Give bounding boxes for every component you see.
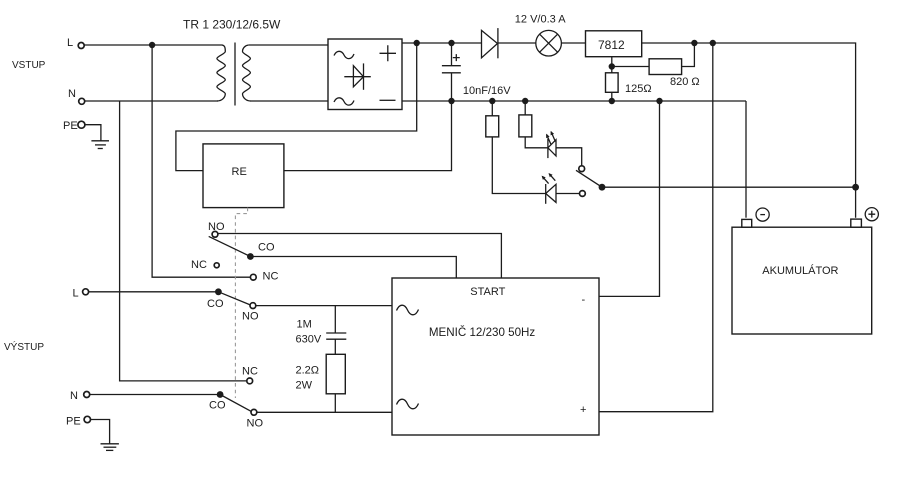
resistor RB box [519, 115, 532, 137]
svg-text:N: N [68, 88, 76, 100]
wire PE output [91, 420, 110, 444]
wire K2 NO to inverter [256, 305, 392, 307]
wire N input [85, 100, 218, 102]
lamp 12V/0.3A [536, 30, 562, 56]
svg-text:AKUMULÁTOR: AKUMULÁTOR [762, 264, 838, 277]
switch K1 NC contact (unused) [214, 263, 219, 268]
terminal N (input) [79, 98, 85, 104]
wire LED D2 to switch [556, 148, 582, 166]
svg-text:+: + [580, 404, 586, 416]
battery minus mark [756, 208, 769, 221]
switch K2 NO contact [250, 303, 256, 309]
LED D3 (lower) [546, 184, 556, 204]
wire N output to CO [90, 394, 220, 396]
inverter AC symbol bottom [397, 399, 419, 409]
resistor R2 820ohm box [649, 59, 682, 75]
wire PE input [85, 125, 101, 141]
svg-text:MENIČ 12/230 50Hz: MENIČ 12/230 50Hz [429, 326, 536, 339]
switch K1 CO pole node [247, 253, 254, 260]
wire R3 to N output wire [334, 394, 336, 413]
transformer TR1 primary winding [217, 45, 225, 101]
bridge AC symbol top [334, 51, 354, 58]
switch S1 contact lower [580, 191, 586, 197]
svg-text:NC: NC [191, 259, 207, 271]
switch K2 CO pole node [215, 288, 222, 295]
svg-text:VÝSTUP: VÝSTUP [4, 340, 44, 353]
svg-text:-: - [582, 294, 586, 306]
wire D1 to lamp [498, 42, 536, 44]
node 125 bottom [609, 98, 615, 104]
svg-text:NO: NO [247, 418, 264, 430]
wire 820 to output rail [682, 43, 695, 67]
wire N drop to NC contact [120, 101, 247, 381]
battery plus post [851, 219, 862, 227]
inverter AC symbol top [397, 305, 419, 315]
wire lamp to 7812 [561, 42, 585, 44]
svg-text:N: N [70, 390, 78, 402]
LED D2 arrows [547, 132, 556, 145]
wire K1 NO to inverter START [218, 234, 502, 279]
svg-text:NO: NO [242, 311, 259, 323]
bridge rectifier box [328, 39, 402, 110]
switch K2 lever [218, 292, 250, 305]
bridge plus symbol [380, 45, 397, 61]
svg-text:2W: 2W [296, 380, 313, 392]
diode D1 [482, 28, 498, 58]
battery minus post [742, 219, 752, 227]
resistor RB leads [525, 101, 548, 148]
transformer TR1 secondary winding [243, 45, 251, 101]
terminal PE (output) [84, 416, 90, 422]
relay RE box [203, 144, 284, 208]
node C1 top [448, 40, 454, 46]
regulator U1 7812 box [586, 31, 642, 57]
terminal N (output) [84, 392, 90, 398]
switch K2 NC contact [250, 274, 256, 280]
bridge AC symbol bottom [334, 98, 354, 105]
node 820 top [691, 40, 697, 46]
node inverter plus branch [710, 40, 716, 46]
svg-text:PE: PE [63, 120, 78, 132]
wire relay feed [176, 43, 417, 171]
ground (output PE) [101, 444, 119, 451]
svg-text:125Ω: 125Ω [625, 83, 652, 95]
wire K1 CO to inverter START [250, 257, 456, 279]
wire bridge plus output [402, 42, 482, 44]
svg-text:TR 1 230/12/6.5W: TR 1 230/12/6.5W [183, 18, 281, 32]
wire ground rail (bridge minus) [402, 100, 746, 102]
wire 7812 ground lead [611, 57, 613, 73]
relay linkage (dashed) [235, 208, 247, 398]
battery AKUMULATOR box [732, 227, 872, 334]
svg-text:1M: 1M [297, 319, 312, 331]
terminal L (output) [83, 289, 89, 295]
terminal PE (input) [78, 121, 85, 128]
resistor R1 125ohm box [606, 73, 619, 93]
svg-text:RE: RE [232, 166, 247, 178]
node bridge plus branch [414, 40, 420, 46]
switch K3 NC contact [247, 378, 253, 384]
svg-text:CO: CO [209, 400, 226, 412]
transformer TR1 core [234, 43, 236, 106]
capacitor C2 plates [326, 333, 346, 339]
switch K3 CO pole node [217, 391, 224, 398]
wire gnd junction to 820 [612, 66, 649, 68]
capacitor C2 lead bottom [334, 339, 336, 354]
svg-text:PE: PE [66, 416, 81, 428]
svg-text:CO: CO [207, 298, 224, 310]
node battery plus junction [852, 184, 859, 191]
wire L input [84, 44, 222, 46]
svg-text:L: L [67, 37, 73, 49]
wire 7812 output rail [642, 43, 856, 218]
svg-text:NC: NC [242, 366, 258, 378]
svg-text:10nF/16V: 10nF/16V [463, 85, 511, 97]
capacitor C1 polarity plus [453, 54, 460, 61]
node inverter minus branch [656, 98, 662, 104]
resistor R3 box [326, 354, 345, 394]
svg-text:VSTUP: VSTUP [12, 60, 46, 71]
bridge minus symbol [380, 99, 396, 101]
switch K1 lever [209, 236, 251, 256]
wire secondary bottom to bridge [250, 100, 328, 102]
wire relay to ground rail [284, 101, 452, 171]
switch S1 contact upper [579, 166, 585, 172]
switch K3 NO contact [251, 409, 257, 415]
wire battery minus lead [745, 101, 747, 218]
wire switch S1 to battery plus [602, 186, 856, 188]
switch K3 lever [220, 395, 251, 412]
inverter box MENIC [392, 278, 599, 435]
svg-text:630V: 630V [296, 334, 322, 346]
wire LED D3 to switch [556, 193, 580, 195]
wire K3 NO to inverter [257, 411, 392, 413]
node C1 bottom [448, 98, 454, 104]
capacitor C1 leads [451, 43, 453, 101]
svg-text:820 Ω: 820 Ω [670, 76, 700, 88]
wire inverter plus riser [599, 43, 713, 412]
wire 125 to ground rail [611, 92, 613, 101]
capacitor C1 plates [442, 66, 461, 73]
terminal L (input) [78, 43, 84, 49]
switch S1 pole node [599, 184, 606, 191]
svg-text:7812: 7812 [598, 38, 625, 52]
ground (input PE) [91, 141, 109, 149]
battery plus mark [865, 208, 878, 221]
resistor RA leads [492, 101, 545, 194]
wire secondary top to bridge [249, 44, 328, 46]
capacitor C2 lead top [334, 306, 336, 333]
svg-text:START: START [470, 286, 505, 298]
svg-text:12 V/0.3 A: 12 V/0.3 A [515, 14, 566, 26]
LED D3 arrows [542, 174, 555, 184]
svg-text:L: L [73, 288, 79, 300]
svg-text:2.2Ω: 2.2Ω [296, 365, 320, 377]
node LED resistor RA top [489, 98, 495, 104]
bridge internal diode [344, 63, 371, 89]
wire L output to CO [89, 291, 219, 293]
switch K1 NO contact [212, 231, 218, 237]
LED D2 (upper) [548, 139, 556, 159]
svg-text:CO: CO [258, 242, 275, 254]
switch S1 lever [576, 170, 602, 187]
node 7812 gnd junction [609, 63, 615, 69]
svg-text:NC: NC [263, 271, 279, 283]
wire inverter minus riser [599, 101, 660, 296]
resistor RA box [486, 116, 499, 137]
node LED resistor RB top [522, 98, 528, 104]
node L junction [149, 42, 155, 48]
wire L drop to NC contact [152, 45, 250, 277]
